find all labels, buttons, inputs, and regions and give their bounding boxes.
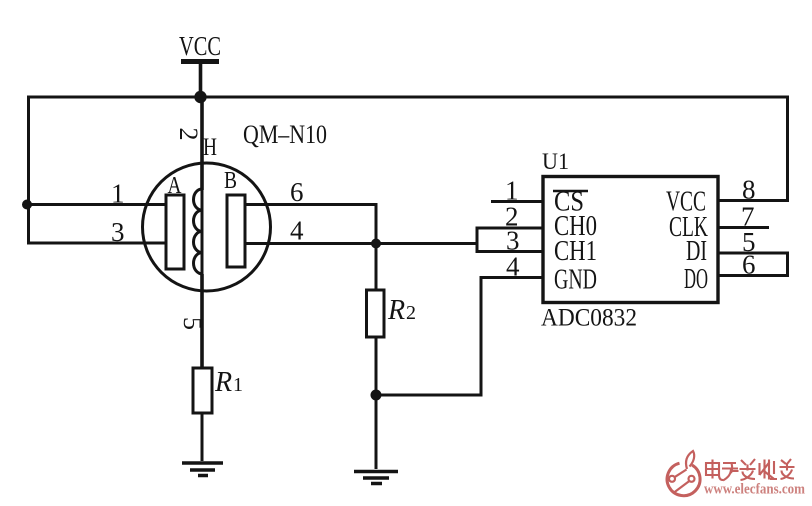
wire VCC stem xyxy=(199,62,203,98)
wire heater stem from rail into sensor xyxy=(200,97,204,190)
wire R2 top stem xyxy=(375,244,378,291)
svg-text:QM–N10: QM–N10 xyxy=(243,120,327,149)
svg-text:CH1: CH1 xyxy=(554,235,597,267)
svg-text:R: R xyxy=(214,367,232,398)
CS overline xyxy=(553,190,588,193)
junction dot under VCC xyxy=(194,91,206,103)
op-amp / IC U1 ADC0832 body xyxy=(543,177,718,303)
svg-text:4: 4 xyxy=(290,216,304,246)
wire U1 pin 6 xyxy=(718,274,789,277)
ground under R1 xyxy=(182,463,223,476)
junction dot pin6/pin4 xyxy=(371,239,381,249)
svg-text:H: H xyxy=(203,134,217,161)
wire pin 3 xyxy=(27,242,166,245)
resistor R1 xyxy=(193,368,212,413)
ground under R2 xyxy=(354,472,398,484)
svg-text:6: 6 xyxy=(290,177,304,207)
svg-text:DO: DO xyxy=(684,263,708,295)
sensor electrode B plate xyxy=(227,195,245,267)
wire ground return to ADC GND pin xyxy=(376,278,543,396)
wire joining pins 2 and 3 xyxy=(476,227,479,254)
sensor QM-N10 body circle xyxy=(143,163,271,291)
watermark logo circle xyxy=(667,451,700,496)
wire U1 pin 2 xyxy=(477,227,543,230)
junction dot on left bus xyxy=(22,200,32,210)
svg-text:VCC: VCC xyxy=(179,31,221,61)
wire U1 pin 5 xyxy=(718,253,788,276)
svg-text:R: R xyxy=(387,295,405,326)
wire U1 pin 8 xyxy=(718,199,789,202)
wire pin 4 to ADC xyxy=(245,242,476,245)
resistor R2 xyxy=(367,290,385,337)
svg-text:A: A xyxy=(168,173,183,199)
wire R1 to ground xyxy=(201,413,204,461)
svg-text:B: B xyxy=(224,168,237,194)
wire U1 pin 3 xyxy=(477,250,543,253)
svg-text:1: 1 xyxy=(233,374,243,396)
svg-text:4: 4 xyxy=(506,252,520,282)
wire U1 pin 1 xyxy=(491,200,543,203)
wire top rail xyxy=(27,96,789,99)
svg-text:ADC0832: ADC0832 xyxy=(541,305,637,332)
wire pin 1 xyxy=(27,203,166,206)
svg-text:U1: U1 xyxy=(542,149,569,174)
wire U1 pin 7 xyxy=(718,226,769,229)
power VCC bar symbol xyxy=(181,59,219,64)
wire left bus vertical xyxy=(27,96,30,245)
junction dot R2 bottom xyxy=(371,390,382,401)
svg-text:2: 2 xyxy=(406,302,416,324)
sensor heater coil xyxy=(194,189,203,274)
watermark text 电子发烧友 (approximated strokes) xyxy=(706,459,795,481)
wire right vertical from rail to U1 pin 8 xyxy=(786,96,789,203)
wire sensor bottom stem xyxy=(200,274,204,368)
svg-text:GND: GND xyxy=(554,264,597,296)
sensor electrode A plate xyxy=(166,195,184,269)
svg-text:2: 2 xyxy=(174,128,203,141)
wire pin 6 xyxy=(245,205,376,244)
svg-text:www.elecfans.com: www.elecfans.com xyxy=(704,482,805,498)
wire R2 to ground xyxy=(375,337,378,469)
